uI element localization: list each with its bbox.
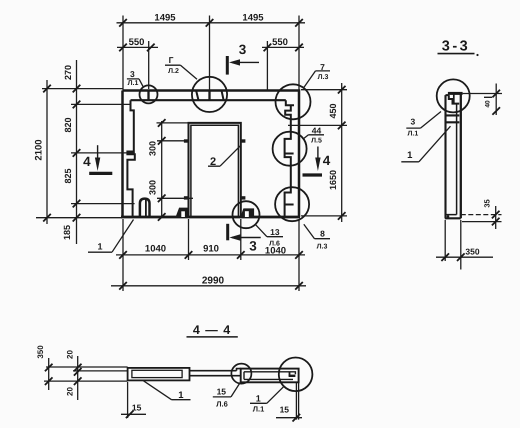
panel plan: outer wall outline bbox=[121, 91, 300, 218]
svg-text:910: 910 bbox=[203, 244, 219, 255]
section 4-4 small callout circle bbox=[231, 364, 251, 384]
svg-text:1650: 1650 bbox=[328, 170, 338, 190]
bottom dimension row 2990 bbox=[111, 275, 306, 289]
dimension 550 left bbox=[117, 37, 158, 89]
section 4-4 big callout circle bbox=[279, 358, 313, 392]
leader label 1 bottom-left of plan bbox=[88, 220, 134, 253]
section marker 3 top bbox=[227, 42, 259, 75]
door 300/300 dimension line bbox=[148, 119, 194, 221]
callout label G/L2 bbox=[165, 55, 197, 79]
callout circle small top-left bbox=[140, 85, 158, 103]
svg-text:8: 8 bbox=[320, 229, 325, 239]
section 4-4 left dims 350/20/20 bbox=[36, 345, 128, 400]
svg-text:4: 4 bbox=[83, 154, 91, 169]
svg-text:44: 44 bbox=[312, 125, 322, 135]
top dimension row 1495+1495 bbox=[117, 13, 306, 91]
callout label 8/L3 bottom-right bbox=[304, 224, 330, 250]
svg-text:20: 20 bbox=[65, 350, 74, 359]
section 4-4 label 15/L6 bbox=[213, 382, 241, 409]
callout circle door bottom bbox=[233, 201, 260, 228]
svg-text:35: 35 bbox=[483, 199, 492, 207]
callout circle big top-center bbox=[192, 77, 227, 112]
callout circle right bottom bbox=[275, 187, 309, 221]
svg-text:185: 185 bbox=[62, 225, 72, 240]
svg-text:1: 1 bbox=[407, 150, 413, 161]
svg-text:Л.1: Л.1 bbox=[128, 80, 139, 87]
svg-text:15: 15 bbox=[217, 387, 227, 397]
section marker 4 left bbox=[83, 145, 112, 173]
right wall inner profile with keyed notches bbox=[285, 100, 294, 216]
svg-text:Л.2: Л.2 bbox=[168, 68, 179, 75]
svg-text:550: 550 bbox=[272, 37, 288, 48]
svg-text:Л.1: Л.1 bbox=[253, 404, 265, 413]
svg-text:Л.1: Л.1 bbox=[408, 131, 419, 138]
svg-text:3: 3 bbox=[411, 117, 416, 127]
section 4-4 middle band bbox=[190, 371, 241, 376]
section 3-3 wall profile bbox=[445, 93, 463, 218]
keyway trapezoid in top wall center bbox=[196, 90, 223, 101]
svg-text:3: 3 bbox=[130, 69, 135, 79]
top wall inner line bbox=[131, 99, 286, 101]
svg-text:825: 825 bbox=[63, 168, 73, 183]
section 3-3 dimension 350 bbox=[436, 220, 493, 270]
svg-text:3-3: 3-3 bbox=[442, 39, 470, 55]
svg-text:13: 13 bbox=[270, 227, 280, 237]
section 3-3 dimension 40 bbox=[463, 84, 502, 116]
svg-text:40: 40 bbox=[485, 100, 492, 108]
leader label 2 on door bbox=[208, 145, 241, 168]
section marker 4 right bbox=[303, 147, 331, 176]
callout circle top-right corner bbox=[276, 84, 311, 119]
svg-text:1: 1 bbox=[97, 242, 102, 252]
section 4-4 label 1 bbox=[144, 381, 191, 401]
left dimension column 270/820/825/185 bbox=[62, 60, 135, 244]
section 4-4 label 1/L1 bbox=[250, 386, 285, 414]
svg-text:3: 3 bbox=[239, 42, 247, 57]
bottom dimension row 1040/910/1040 bbox=[116, 219, 305, 291]
callout label 13/L6 bottom bbox=[256, 225, 283, 248]
svg-text:15: 15 bbox=[132, 402, 142, 412]
svg-text:1495: 1495 bbox=[242, 13, 264, 24]
notched block 13 at door bottom right bbox=[240, 208, 254, 217]
svg-text:300: 300 bbox=[148, 180, 158, 195]
svg-text:4 — 4: 4 — 4 bbox=[193, 323, 231, 337]
callout label 44/L5 right-middle bbox=[303, 125, 324, 144]
svg-text:300: 300 bbox=[148, 141, 158, 156]
dimension 550 right bbox=[262, 37, 304, 91]
section 4-4 left panel block bbox=[128, 368, 190, 381]
section 3-3 label 1 bbox=[401, 126, 450, 162]
section 4-4 right panel block bbox=[241, 369, 299, 420]
svg-text:550: 550 bbox=[129, 37, 145, 48]
section 4-4 dimension 15 right bbox=[276, 404, 302, 421]
svg-text:1: 1 bbox=[256, 393, 261, 403]
svg-text:820: 820 bbox=[63, 117, 73, 132]
notched block left of door bottom bbox=[176, 208, 188, 217]
svg-text:2990: 2990 bbox=[202, 275, 225, 286]
arch-shaped insert at bottom left interior bbox=[140, 199, 150, 217]
section 4-4 title bbox=[187, 323, 238, 337]
svg-text:Л.6: Л.6 bbox=[216, 400, 228, 409]
lifting loop mark in small circle bbox=[147, 90, 149, 101]
door opening 2: frame bbox=[189, 123, 241, 217]
svg-text:20: 20 bbox=[65, 387, 74, 396]
svg-text:Л.5: Л.5 bbox=[311, 138, 322, 145]
svg-text:1040: 1040 bbox=[145, 244, 166, 255]
svg-text:450: 450 bbox=[328, 103, 338, 118]
callout circle right middle bbox=[273, 132, 307, 166]
right dimension column 450/1650 bbox=[288, 83, 347, 222]
svg-text:Г: Г bbox=[169, 55, 174, 65]
section 4-4 dimension 15 left bbox=[121, 382, 146, 418]
svg-text:3: 3 bbox=[249, 238, 257, 253]
svg-text:270: 270 bbox=[63, 65, 73, 80]
svg-text:Л.3: Л.3 bbox=[317, 244, 328, 251]
section marker 3 bottom bbox=[228, 224, 261, 254]
svg-text:4: 4 bbox=[323, 153, 331, 168]
section 3-3 title bbox=[438, 39, 479, 57]
svg-text:15: 15 bbox=[280, 404, 290, 414]
section 3-3 label 3/L1 bbox=[406, 112, 441, 138]
section 3-3 corner callout circle bbox=[437, 79, 470, 112]
left wall inner profile with notches bbox=[127, 100, 134, 216]
callout label 3/L1 top-left bbox=[127, 69, 143, 87]
svg-text:Л.6: Л.6 bbox=[269, 240, 280, 247]
svg-text:Л.3: Л.3 bbox=[318, 74, 329, 81]
svg-text:2100: 2100 bbox=[34, 139, 45, 160]
svg-text:350: 350 bbox=[36, 345, 45, 359]
left dimension column 2100 bbox=[34, 80, 123, 224]
svg-text:1495: 1495 bbox=[154, 13, 176, 24]
callout label 7/L3 top-right bbox=[304, 62, 331, 88]
svg-text:350: 350 bbox=[465, 246, 479, 256]
door hinge marks bbox=[184, 139, 246, 199]
section 3-3 dimension 35 bbox=[461, 199, 502, 229]
